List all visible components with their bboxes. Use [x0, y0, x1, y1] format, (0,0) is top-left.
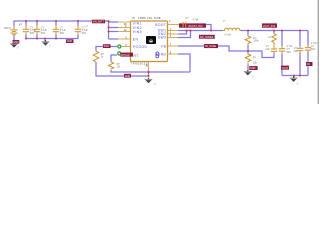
svg-text:EN: EN	[133, 37, 139, 41]
svg-text:VOUT_3V3: VOUT_3V3	[263, 25, 276, 28]
svg-text:RT: RT	[134, 54, 139, 58]
svg-text:AGND: AGND	[155, 52, 166, 56]
svg-text:VIN1: VIN1	[133, 21, 142, 25]
svg-text:FB: FB	[161, 44, 166, 48]
svg-text:50V: 50V	[311, 48, 316, 51]
svg-text:FB_NODE: FB_NODE	[205, 45, 217, 48]
svg-text:1uF: 1uF	[293, 50, 298, 53]
svg-text:BOOT: BOOT	[155, 23, 166, 27]
svg-text:50V: 50V	[30, 32, 35, 35]
svg-text:50V: 50V	[287, 51, 292, 54]
svg-text:SW_NODE9: SW_NODE9	[200, 36, 214, 39]
svg-text:PGOOD: PGOOD	[133, 45, 148, 49]
svg-text:SW3: SW3	[158, 35, 167, 39]
svg-text:VIN_BATT: VIN_BATT	[93, 21, 105, 24]
svg-text:LMR5 VOL TIME: LMR5 VOL TIME	[138, 17, 161, 20]
svg-text:GND: GND	[67, 40, 73, 43]
svg-text:VIN3: VIN3	[133, 30, 142, 34]
svg-text:1uF: 1uF	[265, 48, 270, 51]
svg-text:GND: GND	[125, 75, 131, 78]
svg-text:GND: GND	[250, 67, 256, 70]
svg-text:NC: NC	[307, 63, 311, 66]
svg-text:GND: GND	[13, 41, 19, 44]
svg-text:100k: 100k	[253, 40, 259, 43]
svg-text:VOUT: VOUT	[282, 67, 289, 70]
svg-text:V?: V?	[19, 22, 23, 26]
svg-text:TPS63030: TPS63030	[131, 62, 148, 65]
svg-text:100mV: 100mV	[4, 27, 12, 30]
svg-text:4.7uH: 4.7uH	[224, 33, 231, 36]
svg-text:PGD: PGD	[104, 45, 109, 48]
svg-text:BOOST_5V0: BOOST_5V0	[189, 25, 204, 28]
svg-text:RT/CLK: RT/CLK	[121, 54, 130, 57]
svg-text:4.7uF: 4.7uF	[193, 18, 200, 21]
